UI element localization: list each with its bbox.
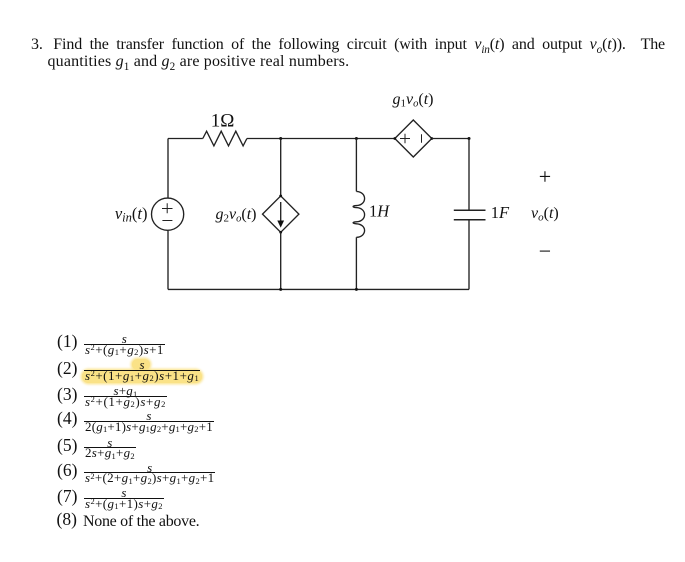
node dot top-right corner <box>468 137 471 140</box>
U2 arrow head <box>277 221 284 228</box>
wire left vertical below source <box>167 231 169 290</box>
svg-text:vin(t): vin(t) <box>115 204 148 225</box>
V1 minus <box>162 220 172 222</box>
option 8 <box>57 509 77 530</box>
svg-text:g1vo(t): g1vo(t) <box>393 91 434 110</box>
option 5 <box>57 435 77 456</box>
wire top-right (diamond to corner) <box>432 138 469 140</box>
wire right vertical above capacitor <box>468 139 470 211</box>
wire left vertical above source <box>167 139 169 199</box>
node A top dot <box>279 137 282 140</box>
highlight small bubble on option 2 numerator <box>132 359 150 370</box>
wire g2 source down <box>280 232 282 289</box>
node dot g2 bottom vertex <box>279 231 282 234</box>
option 2 <box>57 358 77 379</box>
option 7 <box>57 486 77 507</box>
node B bottom dot <box>355 288 358 291</box>
svg-text:1H: 1H <box>369 202 390 221</box>
wire top-left horizontal (source top to resistor) <box>168 138 203 140</box>
voltage source V1 vin(t) circle <box>152 198 184 230</box>
resistor R 1ohm zigzag <box>203 131 247 146</box>
wire bottom horizontal <box>168 288 469 290</box>
highlight large bubble on option 2 denominator <box>82 370 202 383</box>
capacitor C1 1F plates <box>454 210 486 220</box>
dependent current source U2 g2vo(t) diamond <box>263 196 299 232</box>
node dot g2 top vertex <box>279 195 282 198</box>
wire inductor down <box>355 237 357 289</box>
svg-text:g2vo(t): g2vo(t) <box>216 206 257 225</box>
svg-text:−: − <box>539 239 551 264</box>
U1 minus bar <box>421 134 423 142</box>
U2 arrow shaft <box>280 202 282 222</box>
V1 plus <box>162 203 173 213</box>
node A bottom dot <box>279 288 282 291</box>
svg-text:vo(t): vo(t) <box>531 205 559 224</box>
dependent source U1 g1vo(t) diamond <box>395 120 432 157</box>
wire node B down to inductor <box>355 139 357 192</box>
option 1 <box>57 331 77 352</box>
option 4 <box>57 408 77 429</box>
U1 plus sign <box>400 134 410 143</box>
wire node A down to g2 source <box>280 139 282 196</box>
option 6 <box>57 460 77 481</box>
svg-text:+: + <box>539 164 551 189</box>
node dot g1 right vertex <box>430 137 433 140</box>
svg-text:1F: 1F <box>491 203 510 222</box>
option 3 <box>57 384 77 405</box>
inductor L1 1H coil <box>353 191 364 237</box>
wire top middle (resistor to g1 diamond) <box>247 138 395 140</box>
node B top dot <box>355 137 358 140</box>
svg-text:1Ω: 1Ω <box>211 111 235 132</box>
wire below capacitor <box>468 220 470 290</box>
node dot g1 left vertex <box>393 137 396 140</box>
